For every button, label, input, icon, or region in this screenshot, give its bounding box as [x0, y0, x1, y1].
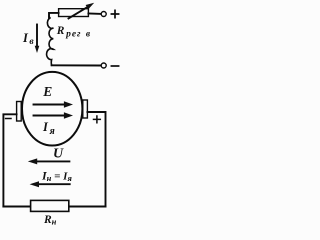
brush (left)	[17, 102, 22, 122]
terminal (lower)	[101, 63, 106, 68]
load current arrow Iн (left)	[30, 181, 70, 187]
minus sign (left rail)	[6, 118, 11, 120]
inductor (field coil)	[47, 17, 54, 66]
armature current arrow Iя (right)	[34, 112, 74, 119]
svg-text:Iв: Iв	[22, 31, 34, 47]
svg-text:Rн: Rн	[43, 214, 57, 226]
wire: rheostat right to terminal	[88, 13, 101, 15]
wire: bottom rail	[3, 206, 105, 208]
svg-text:Iн = Iя: Iн = Iя	[41, 169, 72, 184]
plus sign (right rail)	[94, 116, 101, 123]
svg-text:U: U	[53, 147, 64, 162]
wire: coil top elbow to rheostat left	[49, 13, 59, 18]
minus sign (lower terminal)	[111, 65, 118, 67]
svg-text:Iя: Iя	[42, 120, 55, 137]
generator armature (machine)	[22, 72, 82, 146]
terminal (upper)	[101, 12, 106, 17]
voltage arrow U (left)	[28, 158, 70, 164]
rheostat adjustment arrow	[69, 3, 95, 19]
wire: right brush to right rail, down	[87, 112, 105, 207]
wire: left brush to left rail, down	[3, 114, 16, 206]
resistor (rheostat) R_рег.в	[59, 9, 89, 17]
brush (right)	[83, 100, 88, 118]
resistor Rн (load)	[31, 200, 69, 211]
svg-text:Rрегв: Rрегв	[56, 25, 91, 40]
plus sign (upper terminal)	[111, 10, 118, 17]
current arrow Iв (down)	[35, 25, 40, 54]
svg-text:E: E	[42, 84, 52, 99]
EMF arrow E (right)	[34, 101, 74, 108]
wire: coil bottom to lower terminal	[52, 64, 101, 66]
